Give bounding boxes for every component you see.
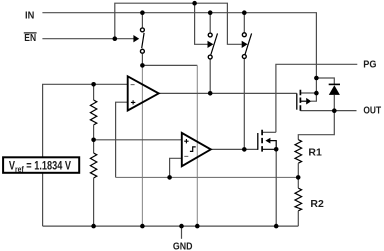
transistor Q2 NMOS open-drain PG (258, 130, 276, 152)
wire PG line (276, 64, 357, 132)
junction ground rail at U2 line (195, 224, 200, 229)
wire EN riser and top distribution (115, 3, 242, 44)
wire R1 to feedback node (297, 163, 299, 188)
svg-text:EN: EN (24, 33, 36, 44)
wire PMOS source stub (300, 92, 316, 94)
switch S2 (208, 33, 218, 59)
junction feedback node FB (296, 175, 301, 180)
junction Q2 source body tie (274, 147, 279, 152)
wire IN rail to pass FET (42, 13, 316, 102)
wire reference divider top lead (93, 84, 95, 100)
wire OUT to R1 (298, 111, 334, 140)
junction ground rail at U1 line (140, 224, 145, 229)
wire EN lead (42, 38, 133, 40)
wire switch S2 bottom lead to gate line (209, 59, 211, 93)
junction ground rail at GND pin (179, 224, 184, 229)
svg-text:OUT: OUT (363, 105, 381, 116)
transistor Q1 PMOS pass element (297, 90, 312, 111)
junction ground rail at Q2 source (274, 224, 279, 229)
svg-text:R1: R1 (308, 147, 322, 158)
resistor left chain upper (90, 100, 96, 125)
op-amp U1 error amplifier (128, 76, 159, 110)
diode D1 PMOS body diode (329, 84, 340, 95)
wire U2 output to NMOS gate (211, 148, 258, 150)
wire switch S1 bottom lead (141, 54, 143, 66)
wire GND pin stub (181, 226, 183, 239)
wire switch S3 bottom lead to comparator output (243, 59, 245, 149)
wire OUT line with PMOS drain stub (300, 110, 356, 112)
wire NMOS source body to ground rail (275, 149, 277, 226)
resistor left chain lower (90, 153, 96, 178)
wire U1 output to PMOS gate (159, 92, 297, 94)
wire left chain to ground rail (93, 178, 95, 226)
junction EN top line to S2 branch (192, 1, 197, 6)
svg-text:GND: GND (173, 241, 193, 251)
wire Vref box bottom to ground rail (42, 173, 44, 226)
svg-text:IN: IN (25, 10, 34, 21)
junction switched supply node (140, 63, 145, 68)
junction EN lead to riser (113, 36, 118, 41)
switch S3 (242, 33, 252, 59)
wire ground rail (43, 225, 299, 227)
wire switch S1 top lead (141, 13, 143, 28)
junction OUT node (332, 108, 337, 113)
Vref box (3, 157, 79, 174)
wire amp U1 supply pass line (141, 65, 143, 226)
resistor R1 (295, 140, 302, 164)
wire switched supply horizontal (142, 64, 197, 66)
junction IN rail to S3 (242, 10, 247, 15)
wire amp U2 supply pass line (196, 65, 198, 226)
wire feedback line (116, 176, 299, 178)
junction Vref line to divider top (91, 82, 96, 87)
wire Vref to U1 inverting input (43, 84, 128, 157)
switch S1 (133, 28, 144, 53)
junction divider mid node (91, 138, 96, 143)
wire R2 bottom to ground rail (297, 211, 299, 226)
svg-text:R2: R2 (310, 199, 324, 210)
resistor R2 (295, 188, 302, 211)
wire divider mid to U2 noninverting input (94, 139, 182, 141)
junction IN rail to S2 (208, 10, 213, 15)
junction ground rail at divider (91, 224, 96, 229)
wire between left resistors (93, 125, 95, 153)
wire EN branch to switch S2 (195, 3, 208, 44)
wire NMOS drain stub (262, 131, 276, 133)
junction S3 to comparator output (242, 147, 247, 152)
wire U2 inverting input to feedback (170, 158, 182, 177)
wire switch S3 top lead (243, 13, 245, 33)
junction IN node to diode branch (314, 76, 319, 81)
junction Q1 source body tie (314, 91, 319, 96)
wire switch S2 top lead (209, 13, 211, 33)
op-amp U2 comparator with hysteresis (182, 133, 211, 166)
junction S2 to gate line (208, 91, 213, 96)
junction IN rail to S1 (140, 10, 145, 15)
svg-text:PG: PG (363, 60, 377, 71)
wire diode branch from IN node (316, 78, 334, 111)
junction feedback to U2 inverting input (167, 175, 172, 180)
wire U1 noninverting input to feedback (116, 102, 128, 177)
